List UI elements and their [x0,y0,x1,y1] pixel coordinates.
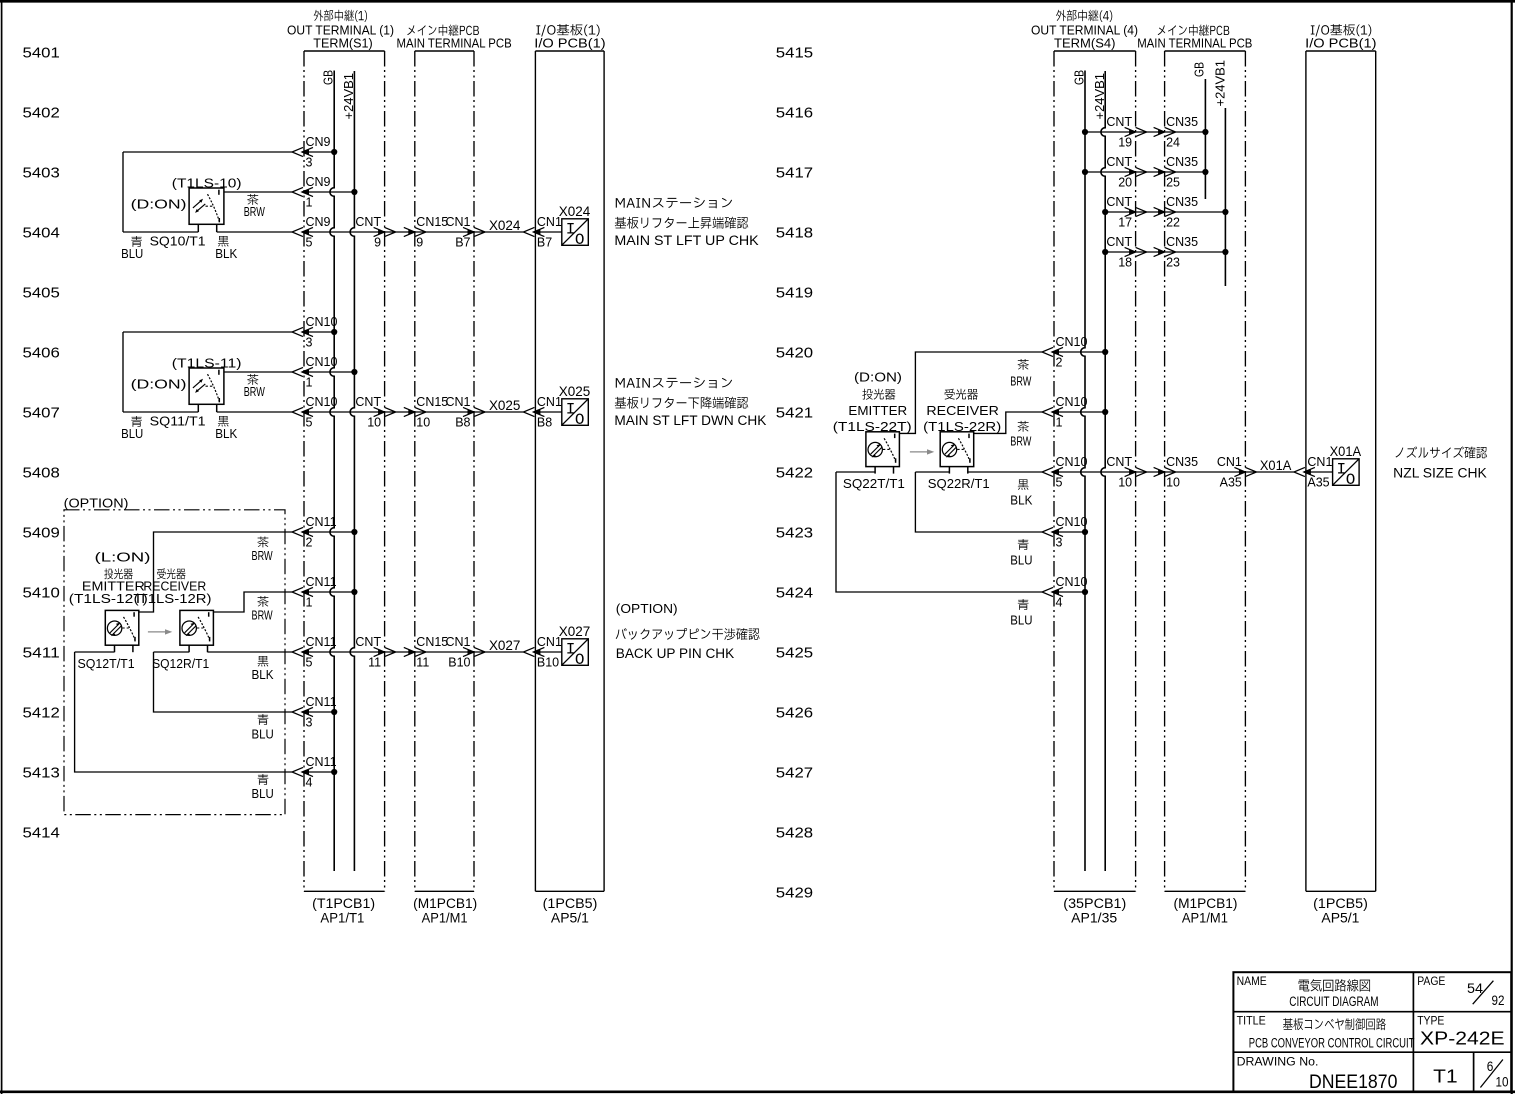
svg-text:AP1/M1: AP1/M1 [1182,911,1228,926]
board label (M1PCB1) AP1/M1 (right) [1174,896,1238,926]
svg-text:11: 11 [368,656,381,670]
power rail +24VB1 (S1) [342,71,356,871]
svg-text:22: 22 [1166,216,1180,230]
svg-text:X025: X025 [489,397,521,413]
board label (1PCB5) AP5/1 (left) [543,896,598,926]
svg-text:NZL SIZE CHK: NZL SIZE CHK [1393,466,1487,481]
svg-text:1: 1 [306,596,313,610]
svg-text:5411: 5411 [23,644,60,661]
svg-text:CIRCUIT DIAGRAM: CIRCUIT DIAGRAM [1289,994,1378,1009]
svg-text:(M1PCB1): (M1PCB1) [1174,896,1238,911]
connector CN15 pin 9 (MAIN in) [404,215,449,250]
connector CNT pin 9 (TERM S1 out) [355,215,395,250]
svg-text:CN11: CN11 [306,755,337,769]
svg-text:CN15: CN15 [416,215,448,229]
svg-text:92: 92 [1492,993,1505,1008]
connector CN1 pin B10 (MAIN out) [445,635,485,670]
svg-text:X01A: X01A [1330,443,1362,459]
svg-text:1: 1 [1056,416,1063,430]
svg-text:5: 5 [1056,476,1063,490]
svg-text:CN9: CN9 [306,175,331,189]
connector CN1 pin B8 (MAIN out) [445,395,485,430]
svg-text:3: 3 [306,156,313,170]
connector CN9 pin 5 [292,215,331,250]
connector CNT pin 10 (TERM S4 out) [1106,455,1146,490]
wire CN10/3 BLU loop (T1LS-11) [123,332,334,412]
svg-text:CN15: CN15 [416,395,448,409]
connector CN1 pin A35 (I/O in) [1294,455,1333,490]
connector CN11 pin 2 [292,515,337,550]
svg-text:CNT: CNT [1106,455,1132,469]
svg-text:25: 25 [1166,176,1180,190]
svg-text:(M1PCB1): (M1PCB1) [413,896,477,911]
I/O indicator X024 [559,203,591,249]
svg-text:BRW: BRW [252,549,273,563]
svg-text:CN35: CN35 [1166,115,1198,129]
svg-text:BLU: BLU [1010,554,1032,568]
power rail +24VB1 (S4) [1093,71,1107,871]
header I/O PCB(1) (right) [1305,24,1376,50]
svg-text:18: 18 [1118,256,1132,270]
svg-text:(D:ON): (D:ON) [131,377,187,392]
svg-text:B7: B7 [537,236,552,250]
svg-text:RECEIVER: RECEIVER [926,404,999,418]
svg-text:(T1LS-10): (T1LS-10) [172,175,242,190]
svg-text:1: 1 [306,376,313,390]
header MAIN TERMINAL PCB (right) [1137,25,1252,51]
svg-text:BLU: BLU [121,427,143,441]
photo receiver SQ22R/T1 (T1LS-22R) [940,432,974,474]
junction dot CN10/3 on GB S4 [1082,529,1088,535]
wire CNT/18 to CN35/23 [1105,251,1225,253]
svg-text:CN9: CN9 [306,135,331,149]
svg-text:(T1LS-22T): (T1LS-22T) [833,420,912,434]
junction dot CNT/17 [1102,209,1108,215]
connector CN35 pin 10 (MAIN in) [1154,455,1199,490]
svg-text:PCB CONVEYOR CONTROL CIRCUIT: PCB CONVEYOR CONTROL CIRCUIT [1249,1036,1415,1051]
svg-text:MAIN ST LFT DWN CHK: MAIN ST LFT DWN CHK [614,413,766,428]
bus column TERM(S4) [1054,51,1136,891]
wire CN9/5 BLK (T1LS-10) [123,231,562,233]
label emitter T1LS-12T [69,568,148,606]
svg-text:BLK: BLK [215,247,238,261]
header MAIN TERMINAL PCB (left) [397,25,512,51]
wire CN11/2 BRW emitter (T1LS-12T) [139,532,355,612]
svg-text:10: 10 [1496,1075,1509,1090]
svg-text:CN1: CN1 [1217,455,1242,469]
svg-text:BRW: BRW [1010,435,1031,449]
svg-text:5: 5 [306,416,313,430]
svg-text:9: 9 [374,236,381,250]
svg-text:TERM(S4): TERM(S4) [1054,36,1116,51]
svg-text:SQ22T/T1: SQ22T/T1 [843,476,905,491]
svg-text:CN10: CN10 [1056,455,1088,469]
connector CN11 pin 3 [292,695,337,730]
svg-text:(T1LS-12R): (T1LS-12R) [134,592,212,606]
svg-text:GB: GB [322,70,336,85]
svg-text:AP1/M1: AP1/M1 [422,911,468,926]
title block TYPE cell [1417,1016,1504,1049]
wire CN10/3 BLU receiver [915,472,1085,532]
power rail GB (S4) [1072,70,1086,871]
svg-text:SQ22R/T1: SQ22R/T1 [928,476,990,491]
svg-text:BACK UP PIN CHK: BACK UP PIN CHK [616,646,734,661]
connector CN1 pin A35 (MAIN out) [1217,455,1257,490]
svg-text:A35: A35 [1307,476,1329,490]
svg-text:5412: 5412 [23,704,60,721]
svg-text:23: 23 [1166,256,1180,270]
svg-text:SQ12T/T1: SQ12T/T1 [78,656,135,671]
svg-text:EMITTER: EMITTER [848,404,907,418]
connector CNT pin 20 (TERM S4 out) [1106,155,1146,190]
wire CN11/1 BRW receiver (T1LS-12R) [213,592,354,612]
connector CN10 pin 3 (S4) [1042,515,1088,550]
svg-text:DNEE1870: DNEE1870 [1309,1072,1397,1093]
svg-text:CN9: CN9 [306,215,331,229]
svg-text:5402: 5402 [23,104,60,121]
svg-text:CN35: CN35 [1166,455,1198,469]
label receiver T1LS-22R [923,389,1001,434]
svg-text:I/O PCB(1): I/O PCB(1) [534,36,605,51]
svg-text:(1PCB5): (1PCB5) [543,896,598,911]
svg-text:5425: 5425 [776,644,813,661]
wire CN10/2 BRW emitter (T1LS-22T) [899,352,1105,433]
svg-text:+24VB1: +24VB1 [342,73,356,120]
connector CN9 pin 1 [292,175,331,210]
connector CN35 pin 25 (MAIN in) [1154,155,1199,190]
svg-text:(OPTION): (OPTION) [64,496,129,511]
svg-text:X025: X025 [559,383,591,399]
connector CN15 pin 11 (MAIN in) [404,635,449,670]
svg-text:5416: 5416 [776,104,813,121]
svg-text:24: 24 [1166,136,1180,150]
connector CN10 pin 5 [292,395,338,430]
title block DRAWING No cell [1237,1056,1398,1093]
board label (35PCB1) AP1/35 [1063,896,1126,926]
svg-text:AP5/1: AP5/1 [1321,911,1359,926]
svg-text:CNT: CNT [355,215,381,229]
svg-text:SQ10/T1: SQ10/T1 [150,234,206,249]
wire color labels T1LS-12 [252,536,275,801]
svg-text:A35: A35 [1220,476,1242,490]
junction dot CN10/4 on GB S4 [1082,589,1088,595]
junction dot CN10/1 on +24VB1 S4 [1102,409,1108,415]
junction dot CN10/1 on +24VB1 [351,369,357,375]
svg-text:CNT: CNT [1106,235,1132,249]
svg-text:CN10: CN10 [306,395,338,409]
svg-text:5409: 5409 [23,524,60,541]
svg-text:BLU: BLU [252,787,274,801]
junction dot CN35/25 [1202,169,1208,175]
connector CNT pin 19 (TERM S4 out) [1106,115,1146,150]
svg-text:BRW: BRW [244,205,265,219]
svg-text:3: 3 [1056,536,1063,550]
junction dot CN10/2 on +24VB1 S4 [1102,349,1108,355]
svg-text:BRW: BRW [1010,375,1031,389]
svg-text:5: 5 [306,656,313,670]
wire CN10/1 BRW (T1LS-11) [224,371,355,373]
connector CN35 pin 22 (MAIN in) [1154,195,1199,230]
svg-text:AP1/T1: AP1/T1 [320,911,364,926]
option enclosure box [64,510,285,815]
svg-text:3: 3 [306,336,313,350]
svg-text:19: 19 [1118,136,1132,150]
svg-text:(T1PCB1): (T1PCB1) [312,896,375,911]
svg-text:TERM(S1): TERM(S1) [313,36,372,51]
svg-text:X024: X024 [489,217,521,233]
svg-text:5408: 5408 [23,464,60,481]
wire CN9/1 BRW (T1LS-10) [224,191,355,193]
svg-text:CN11: CN11 [306,515,337,529]
svg-text:BLK: BLK [1010,494,1033,508]
svg-text:9: 9 [416,236,423,250]
svg-text:5428: 5428 [776,824,813,841]
bus column I/O PCB (right) [1306,51,1376,891]
wire CN10/1 BRW receiver (T1LS-22R) [974,412,1105,433]
wire CNT/17 to CN35/22 [1105,211,1225,213]
svg-text:(1PCB5): (1PCB5) [1313,896,1368,911]
junction dot CN11/2 on +24VB1 [351,529,357,535]
connector CN1 pin B7 (MAIN out) [445,215,485,250]
connector CN1 pin B10 (I/O in) [523,635,562,670]
junction dot CN35/24 [1202,129,1208,135]
svg-text:CN10: CN10 [1056,515,1088,529]
svg-text:5: 5 [306,236,313,250]
svg-text:20: 20 [1118,176,1132,190]
svg-text:(OPTION): (OPTION) [616,601,678,616]
svg-text:BLU: BLU [1010,614,1032,628]
junction dot CN9/1 on +24VB1 [351,189,357,195]
limit switch SQ11/T1 (T1LS-11) [189,368,224,412]
svg-text:(T1LS-22R): (T1LS-22R) [923,420,1001,434]
power rail GB (MAIN right) [1193,62,1207,199]
svg-text:2: 2 [306,536,313,550]
svg-text:BLK: BLK [215,427,238,441]
junction dot CN11/1 on +24VB1 [351,589,357,595]
svg-text:BRW: BRW [244,385,265,399]
header OUT TERMINAL(1) TERM(S1) [287,10,394,51]
title block NAME cell [1237,976,1379,1009]
svg-text:5424: 5424 [776,584,813,601]
svg-text:SQ11/T1: SQ11/T1 [150,414,206,429]
connector CN1 pin B8 (I/O in) [523,395,562,430]
svg-text:I/O PCB(1): I/O PCB(1) [1305,36,1376,51]
photo receiver SQ12R/T1 (T1LS-12R) [180,610,214,652]
board label (1PCB5) AP5/1 (right) [1313,896,1368,926]
svg-text:(T1LS-11): (T1LS-11) [172,355,242,370]
svg-text:11: 11 [416,656,429,670]
wire CN10/5 BLK (T1LS-11) [123,411,562,413]
svg-text:XP-242E: XP-242E [1420,1028,1505,1049]
svg-text:O: O [575,231,585,249]
svg-text:CNT: CNT [1106,155,1132,169]
title block PAGE cell [1417,976,1504,1008]
wire color labels T1LS-10 [121,194,265,261]
connector CNT pin 18 (TERM S4 out) [1106,235,1146,270]
svg-text:O: O [575,411,585,429]
junction dot CN35/22 [1222,209,1228,215]
svg-text:B8: B8 [455,416,470,430]
svg-text:AP5/1: AP5/1 [551,911,589,926]
svg-text:NAME: NAME [1237,976,1267,988]
svg-text:AP1/35: AP1/35 [1071,911,1117,926]
svg-text:CN35: CN35 [1166,195,1198,209]
svg-text:10: 10 [367,416,381,430]
svg-text:I: I [566,401,576,419]
svg-text:CN11: CN11 [306,695,337,709]
svg-text:CNT: CNT [1106,195,1132,209]
svg-text:CNT: CNT [1106,115,1132,129]
svg-text:T1: T1 [1433,1066,1457,1086]
svg-text:B10: B10 [448,656,470,670]
connector CN11 pin 1 [292,575,337,610]
svg-text:I: I [566,641,576,659]
title block sheet 6/10 cell [1480,1059,1508,1090]
description MAIN ST LFT UP CHK [614,197,758,248]
svg-text:54: 54 [1467,981,1484,996]
beam arrow T1LS-22 [910,451,929,453]
svg-text:(L:ON): (L:ON) [95,550,151,565]
bus column I/O PCB (left) [535,51,604,891]
wire CN9/3 BLU loop (T1LS-10) [123,152,334,232]
svg-text:5427: 5427 [776,764,813,781]
board label (M1PCB1) AP1/M1 (left) [413,896,477,926]
svg-text:CN1: CN1 [445,395,470,409]
svg-text:CN1: CN1 [445,635,470,649]
svg-text:5418: 5418 [776,224,813,241]
svg-text:CN35: CN35 [1166,155,1198,169]
svg-text:5401: 5401 [23,44,60,61]
connector CN10 pin 1 (S4) [1042,395,1088,430]
svg-text:CN35: CN35 [1166,235,1198,249]
svg-text:1: 1 [306,196,313,210]
svg-text:CN11: CN11 [306,635,337,649]
wire color labels T1LS-22 [1010,359,1033,628]
svg-text:CNT: CNT [355,395,381,409]
svg-text:5429: 5429 [776,884,813,901]
connector CNT pin 17 (TERM S4 out) [1106,195,1146,230]
svg-text:5419: 5419 [776,284,813,301]
svg-text:2: 2 [1056,356,1063,370]
svg-text:CN10: CN10 [1056,575,1088,589]
node line numbers 5415-5429 [776,44,813,901]
wire color labels T1LS-11 [121,374,265,441]
junction dot CNT/20 [1082,169,1088,175]
wire CNT/20 to CN35/25 [1085,171,1205,173]
svg-text:5404: 5404 [23,224,60,241]
connector CNT pin 11 (TERM S1 out) [355,635,395,670]
svg-text:B10: B10 [537,656,559,670]
description BACK UP PIN CHK [616,601,760,661]
svg-text:(D:ON): (D:ON) [854,370,902,385]
junction dot CNT/19 [1082,129,1088,135]
svg-text:GB: GB [1072,70,1086,85]
I/O indicator X01A [1330,443,1362,489]
wire CN11/5 BLK receiver signal [208,651,562,653]
svg-text:TYPE: TYPE [1417,1016,1444,1028]
label receiver T1LS-12R [134,568,212,606]
connector CN10 pin 3 [292,315,338,350]
connector CN9 pin 3 [292,135,331,170]
svg-text:5426: 5426 [776,704,813,721]
svg-text:PAGE: PAGE [1417,976,1445,988]
junction dot CN11/3 on GB [331,709,337,715]
svg-text:X027: X027 [489,637,521,653]
description NZL SIZE CHK [1393,446,1487,480]
junction dot CN11/4 on GB [331,769,337,775]
I/O indicator X025 [559,383,591,429]
svg-text:CN1: CN1 [445,215,470,229]
connector CN10 pin 2 (S4) [1042,335,1088,370]
board label (T1PCB1) AP1/T1 [312,896,375,926]
svg-text:4: 4 [306,776,313,790]
svg-text:CN15: CN15 [416,635,448,649]
wire CN10/4 BLU emitter [836,472,1085,592]
svg-text:BLU: BLU [121,247,143,261]
beam arrow T1LS-12 [148,631,167,633]
title block TITLE cell [1237,1016,1415,1051]
svg-text:(35PCB1): (35PCB1) [1063,896,1126,911]
bus column MAIN TERMINAL (left) [415,51,474,891]
svg-text:5413: 5413 [23,764,60,781]
svg-text:I: I [566,221,576,239]
svg-text:B7: B7 [455,236,470,250]
connector CN11 pin 5 [292,635,337,670]
svg-text:CN10: CN10 [306,315,338,329]
svg-text:I: I [1336,461,1346,479]
header I/O PCB(1) (left) [534,24,605,50]
svg-text:GB: GB [1193,62,1207,77]
svg-text:X01A: X01A [1260,457,1292,473]
svg-text:5414: 5414 [23,824,60,841]
svg-text:5405: 5405 [23,284,60,301]
svg-text:5422: 5422 [776,464,813,481]
svg-text:TITLE: TITLE [1237,1016,1266,1028]
connector CN35 pin 23 (MAIN in) [1154,235,1199,270]
wire CN11/4 BLU emitter [75,652,335,772]
svg-text:X027: X027 [559,623,591,639]
svg-text:5420: 5420 [776,344,813,361]
svg-text:MAIN TERMINAL PCB: MAIN TERMINAL PCB [1137,36,1252,51]
header OUT TERMINAL(4) TERM(S4) [1031,10,1138,51]
svg-text:10: 10 [1118,476,1132,490]
svg-text:+24VB1: +24VB1 [1213,60,1227,107]
bus column MAIN TERMINAL (right) [1165,51,1246,891]
svg-text:O: O [575,651,585,669]
svg-text:5421: 5421 [776,404,813,421]
svg-text:17: 17 [1118,216,1132,230]
svg-text:+24VB1: +24VB1 [1093,73,1107,120]
svg-text:5410: 5410 [23,584,60,601]
junction dot CN35/23 [1222,249,1228,255]
svg-text:CN10: CN10 [1056,335,1088,349]
svg-text:10: 10 [416,416,430,430]
svg-text:CN10: CN10 [1056,395,1088,409]
svg-text:CN10: CN10 [306,355,338,369]
wire CNT/19 to CN35/24 [1085,131,1205,133]
svg-text:BLK: BLK [252,668,275,682]
limit switch SQ10/T1 (T1LS-10) [189,188,224,232]
svg-text:CN11: CN11 [306,575,337,589]
svg-text:MAIN ST LFT UP CHK: MAIN ST LFT UP CHK [614,233,758,248]
svg-text:B8: B8 [537,416,552,430]
node line numbers 5401-5414 [23,44,60,841]
power rail +24VB1 (MAIN right) [1213,60,1227,286]
power rail GB (S1) [322,70,336,871]
svg-text:MAIN TERMINAL PCB: MAIN TERMINAL PCB [397,36,512,51]
connector CNT pin 10 (TERM S1 out) [355,395,395,430]
title block frame [1233,972,1511,1091]
